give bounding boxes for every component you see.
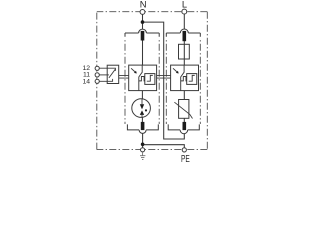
actuator arrow head module 1	[134, 71, 137, 74]
disconnector switch blade module 2	[181, 65, 184, 91]
wire varistor to module 2 bottom plug pin	[183, 118, 185, 122]
status indicator step glyph module 1	[147, 75, 153, 81]
contact 14 stub	[99, 79, 112, 81]
terminal 11	[95, 73, 99, 77]
wire module 2 top plug pin through fuse to disconnector box	[183, 41, 185, 65]
contact 12 stub	[99, 68, 115, 71]
wire PE junction to PE terminal	[143, 145, 185, 148]
spark gap electrode leads	[141, 99, 143, 118]
terminal N	[140, 9, 145, 14]
wire spark gap to module 1 bottom plug pin	[141, 117, 143, 122]
plug contact pin module 1 bottom	[141, 122, 145, 130]
fuse / series impedance on L path	[179, 44, 190, 59]
spark gap lower electrode	[140, 110, 144, 115]
junction node N	[141, 20, 145, 24]
actuator arrow shaft module 2	[173, 68, 177, 71]
spark gap upper electrode	[140, 104, 144, 109]
changeover switch blade	[109, 69, 116, 78]
terminal L	[182, 9, 187, 14]
terminal 14	[95, 79, 99, 83]
wire N junction to varistor bottom (N return path)	[143, 22, 185, 139]
svg-text:N: N	[140, 0, 147, 10]
remote signalling changeover contact FM (box)	[107, 65, 119, 83]
wire disconnector box to varistor	[183, 91, 185, 100]
module 2 outline (varistor plug-in module, dash-dot sides)	[166, 38, 200, 124]
ground	[140, 152, 145, 160]
device enclosure boundary (dash-dot)	[97, 12, 208, 150]
module 2 base line with plug socket	[166, 29, 200, 37]
mechanical coupling link module-1-to-module-2	[157, 75, 171, 78]
terminal earth	[141, 148, 145, 152]
module 1 base line with plug socket	[125, 29, 159, 37]
mechanical coupling link contact-to-module-1	[119, 75, 129, 78]
varistor diagonal stroke	[174, 102, 192, 118]
actuator arrow head module 2	[176, 71, 179, 74]
disconnector with status indication, module 1 (box)	[129, 65, 157, 91]
actuator arrow shaft module 1	[131, 68, 135, 71]
wire module 1 bottom plug to PE junction and earth terminal	[142, 134, 144, 148]
svg-text:14: 14	[82, 78, 90, 85]
plug contact pin module 2 top	[183, 31, 187, 41]
thermal element meander module 1	[139, 77, 145, 81]
module 2 bottom socket bracket with plug arc	[168, 124, 199, 133]
status indicator step glyph module 2	[189, 75, 195, 81]
spark gap trigger dot	[145, 109, 147, 111]
thermal element meander module 2	[181, 77, 187, 81]
plug contact pin module 2 bottom	[183, 122, 187, 130]
disconnector with status indication, module 2 (box)	[171, 65, 199, 91]
wire N terminal to junction and down to module 1 plug	[142, 14, 144, 29]
status indicator box module 1	[145, 74, 155, 85]
terminal PE	[182, 148, 186, 152]
svg-text:L: L	[182, 0, 187, 9]
wire L terminal to module 2 plug	[183, 14, 185, 29]
varistor body	[179, 100, 189, 119]
module 1 bottom socket bracket with plug arc	[127, 124, 158, 133]
module 1 outline (N-PE spark gap plug-in module, dash-dot sides)	[125, 38, 159, 124]
wire module 1 top plug pin to disconnector box	[142, 40, 144, 65]
contact 11 common stub	[99, 74, 109, 76]
junction node PE	[141, 143, 145, 147]
plug contact pin module 1 top	[141, 31, 145, 41]
disconnector switch blade module 1	[139, 65, 142, 91]
spark gap N-PE (circle)	[132, 99, 151, 118]
wire disconnector box to spark gap	[141, 91, 143, 100]
svg-text:PE: PE	[181, 154, 190, 164]
status indicator box module 2	[187, 74, 197, 85]
terminal 12	[95, 66, 99, 70]
